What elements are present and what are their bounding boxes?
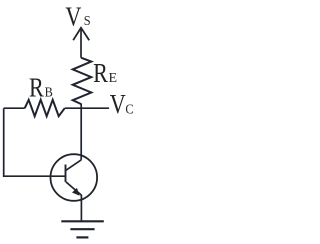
transistor Q1 emitter diagonal — [66, 182, 82, 195]
ground bar 1 — [61, 220, 104, 222]
wire: left feedback wire down and base lead — [4, 108, 66, 176]
svg-text:R: R — [29, 74, 44, 104]
transistor Q1 circle — [51, 154, 98, 201]
ground bar 2 — [70, 228, 94, 230]
svg-text:E: E — [109, 71, 118, 86]
transistor Q1 base bar — [65, 165, 67, 182]
resistor RE — [73, 58, 92, 104]
transistor Q1 emitter arrowhead — [72, 188, 80, 196]
wire: rail to VC label — [65, 107, 109, 109]
wire: collector trunk from RE to transistor — [80, 104, 82, 160]
ground bar 3 — [76, 236, 88, 238]
svg-text:S: S — [84, 12, 91, 28]
wire: emitter down to ground — [80, 195, 82, 221]
resistor RB — [25, 100, 65, 116]
svg-text:V: V — [65, 3, 81, 33]
node VS supply arrow — [73, 28, 89, 40]
transistor Q1 collector diagonal — [66, 160, 81, 171]
wire: node VC rail left lead — [4, 107, 25, 109]
svg-text:B: B — [45, 84, 53, 100]
wire: VS arrow shaft — [80, 29, 82, 58]
svg-text:R: R — [93, 59, 108, 89]
svg-text:V: V — [110, 90, 126, 120]
svg-text:C: C — [125, 101, 133, 117]
